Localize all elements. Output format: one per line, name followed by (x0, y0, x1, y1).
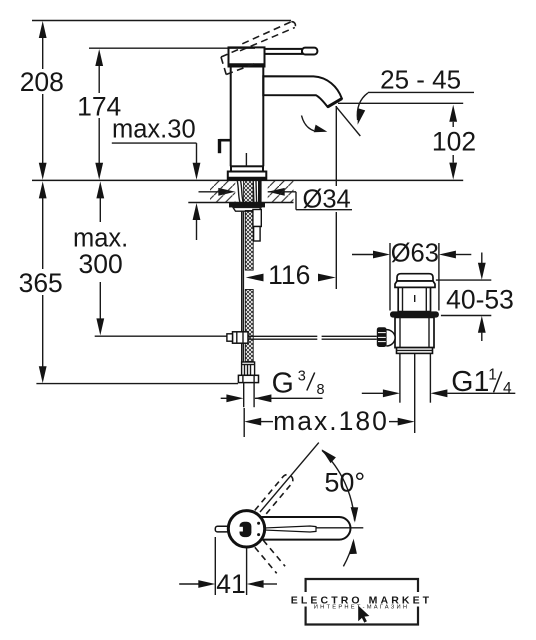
svg-text:G1: G1 (451, 366, 489, 398)
svg-text:max.: max. (73, 224, 128, 252)
svg-text:50°: 50° (324, 468, 365, 498)
svg-text:25 - 45: 25 - 45 (380, 64, 461, 94)
svg-text:40-53: 40-53 (446, 284, 514, 314)
svg-text:116: 116 (268, 260, 310, 290)
svg-text:Ø63: Ø63 (391, 239, 439, 267)
svg-text:365: 365 (19, 268, 63, 298)
svg-text:G: G (272, 368, 294, 400)
svg-text:102: 102 (432, 127, 476, 157)
svg-text:300: 300 (78, 249, 122, 279)
svg-text:208: 208 (20, 67, 64, 97)
svg-text:41: 41 (216, 569, 245, 599)
svg-text:max.180: max.180 (273, 406, 389, 436)
svg-text:Ø34: Ø34 (303, 186, 351, 214)
svg-text:4: 4 (503, 380, 512, 397)
svg-text:1: 1 (488, 367, 497, 384)
svg-text:3: 3 (298, 369, 306, 385)
svg-text:8: 8 (317, 382, 325, 398)
svg-text:max.30: max.30 (112, 116, 196, 144)
